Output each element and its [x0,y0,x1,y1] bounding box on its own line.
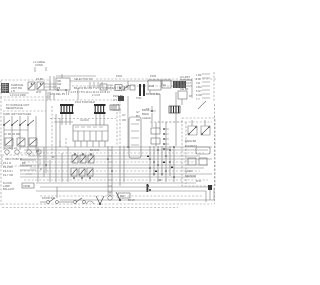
svg-text:DLB: DLB [149,84,154,88]
wires K3K4 [150,80,192,98]
dashed riser x116 [116,112,118,146]
svg-text:SENSOR: SENSOR [185,174,196,178]
wires below P101 [62,114,70,125]
svg-text:6 OR: 6 OR [196,93,202,97]
svg-text:DOOR SW: DOOR SW [42,196,55,200]
svg-text:BK: BK [22,161,26,165]
wire mid rail A [70,80,180,82]
terminal labels row [66,86,122,94]
left bus drops [38,147,68,182]
svg-text:GY: GY [136,110,140,114]
riser pair x120 [120,146,124,186]
ladder riser [108,146,112,196]
svg-text:OVEN LT: OVEN LT [180,81,191,85]
svg-text:BAKE: BAKE [142,112,149,116]
relay contact K5 [151,128,160,134]
stub rail y122 [54,121,73,123]
thermostat TH1 [146,106,156,127]
svg-text:7 Y: 7 Y [196,97,200,101]
svg-text:P2-7 OR: P2-7 OR [3,173,13,177]
junction blob right [208,185,212,190]
node L1 label [33,60,46,72]
wires below P103 [96,114,104,125]
door switch DS1 [40,196,58,203]
clock output wires [75,141,105,147]
terminal bars TB1 [139,84,145,96]
svg-text:L R: L R [11,89,15,93]
svg-text:SW: SW [120,194,125,198]
svg-text:P105: P105 [150,74,157,78]
bottom dashed rail [2,203,212,205]
vertical stub [56,187,58,198]
svg-text:P2-3 BU: P2-3 BU [3,165,13,169]
right pin column J2 [196,72,214,109]
svg-text:P102: P102 [116,74,123,78]
svg-text:R: R [40,167,42,171]
svg-text:L1 N L2 GRD: L1 N L2 GRD [10,93,26,97]
svg-text:1 2: 1 2 [124,85,128,89]
connector P1 [1,83,9,93]
center text rows [142,108,151,120]
svg-text:SELECTOR SW: SELECTOR SW [74,77,93,81]
svg-text:SW: SW [57,82,62,86]
center small cluster [113,94,142,122]
svg-text:HI MED LO: HI MED LO [4,146,17,150]
left panel switch row 2 [4,138,37,150]
svg-text:BU: BU [136,114,140,118]
component stack right of box [36,77,50,100]
svg-text:P4 BK: P4 BK [36,77,44,81]
left lower text [3,160,36,177]
door switch DS2 [59,198,85,203]
wire drop x78 [48,88,78,100]
svg-text:XFMR: XFMR [23,184,30,188]
surface unit text [11,83,24,93]
relay box K3 [148,80,161,90]
chassis dashed border right [214,104,216,204]
svg-text:P101 P103 60HZ: P101 P103 60HZ [75,100,95,104]
svg-text:3 R: 3 R [196,81,200,85]
svg-text:RL: RL [163,83,167,87]
svg-text:OR: OR [136,118,140,122]
relay bank dark [173,81,186,88]
center box B1 [129,117,141,158]
vertical riser x128 [127,96,129,146]
svg-text:BK W R: BK W R [90,148,99,152]
svg-text:1 BK: 1 BK [196,73,202,77]
bus wires [20,147,212,180]
buzzer arc [86,201,94,204]
svg-text:BK: BK [36,149,40,153]
oven text [185,139,210,183]
svg-text:W R: W R [36,90,41,94]
svg-text:ELEMENT: ELEMENT [185,144,198,148]
magnetron text [3,181,34,191]
dashed stub rail [106,89,128,91]
left panel dashed border [0,97,2,205]
dashed drops left of clock [60,138,66,147]
rail ticks row [92,74,160,97]
svg-text:2 W: 2 W [196,77,201,81]
dashed sub-box lamps [2,155,40,166]
svg-text:TS: TS [146,107,150,111]
dashed link y122 [150,121,182,123]
left panel switches [3,112,36,150]
interlock box [116,192,135,202]
relay contact row 2 [71,168,93,179]
svg-text:GY: GY [122,113,126,117]
wires from surface box [9,84,56,93]
right component column [178,75,192,105]
dashed rail y111 [3,110,46,112]
svg-text:CLEAN: CLEAN [142,116,151,120]
riser x156 [156,122,166,146]
relay contact row 1 [72,153,94,163]
svg-text:SURF UNIT SWITCHES: SURF UNIT SWITCHES [3,112,31,116]
vertical riser x120 [119,100,121,146]
inner dashed rail [158,122,212,184]
right enclosure dashed [182,118,215,186]
relay K1 [28,82,35,90]
svg-text:LF RF LR RR: LF RF LR RR [4,132,20,136]
svg-text:2 4 6 8: 2 4 6 8 [92,93,100,97]
vertical riser x46 [45,100,47,173]
svg-text:P2-1 R: P2-1 R [3,161,11,165]
oven switch B [201,120,210,135]
thermal fuse V [96,196,104,205]
svg-text:BAKE BR: BAKE BR [185,139,196,143]
surface unit box (dashed) [1,80,50,97]
component cluster C1 [74,77,135,91]
svg-text:HI LIMIT: HI LIMIT [180,75,190,79]
svg-text:RECEPTACLE: RECEPTACLE [6,106,23,110]
bus text specks [36,149,55,171]
mini ribbon P106 [169,106,180,113]
relay contact K6 [151,138,160,144]
dashed rail y100 [4,99,112,101]
switch S1 block [50,76,70,96]
right cluster risers [150,146,174,182]
relay box K4 [162,80,171,88]
clock box [73,125,108,141]
rail ticks [90,82,102,88]
relay K2 [37,82,44,90]
wire mid rail B [72,85,178,87]
svg-text:BALLAST: BALLAST [3,187,15,191]
oven switch A [188,120,197,135]
svg-text:1 2 3 4 5 6 7 8 9 10 11 12 13: 1 2 3 4 5 6 7 8 9 10 11 12 13 14 15 16 [66,90,110,94]
svg-text:CONN: CONN [35,63,43,67]
svg-text:W R: W R [196,179,201,183]
label left mid [6,103,30,110]
lamp L2 [108,192,112,200]
risers x56 x60 [56,114,60,147]
bottom return wires [36,183,214,202]
dashed cross rail y118 [50,118,116,120]
dashed top rail [96,78,216,80]
svg-text:TOD: TOD [136,96,142,100]
vertical riser x52 dashed [51,106,53,160]
wire top feed [56,74,96,78]
junction dots [45,146,175,191]
svg-text:P2-5 GY: P2-5 GY [3,169,13,173]
left panel lamps [5,150,41,154]
svg-text:SW BK: SW BK [180,87,189,91]
riser x176 [175,92,177,146]
heavy junction bars [147,156,174,193]
pin dot column [163,128,169,150]
svg-text:OR: OR [122,118,126,122]
svg-text:BK W: BK W [128,198,135,202]
svg-text:4 BU: 4 BU [196,85,202,89]
ribbon connector P101 [60,104,74,114]
ribbon connector P103 [94,104,106,114]
riser x160 [159,94,161,130]
light ribbon strip [110,105,119,110]
svg-text:5 GY: 5 GY [196,89,202,93]
